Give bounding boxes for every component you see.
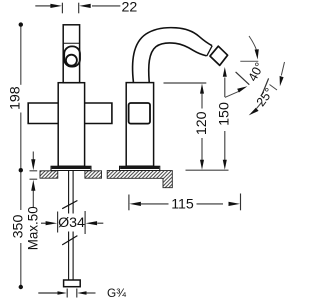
aerator cap parallelogram <box>210 46 228 65</box>
svg-text:150: 150 <box>217 102 233 126</box>
body side <box>126 83 153 167</box>
dimension Max.50 <box>30 152 38 208</box>
cross bar left arm <box>28 103 58 124</box>
svg-text:Ø34: Ø34 <box>58 215 85 231</box>
leader lower with arrow down-left <box>257 103 262 109</box>
shank <box>68 171 70 214</box>
tick 25 <box>262 78 269 94</box>
leader top curved with arrow down <box>249 36 257 51</box>
svg-text:22: 22 <box>122 0 138 15</box>
flange left <box>51 166 91 170</box>
ref line 0deg <box>240 60 258 62</box>
short line right of 25 tick <box>270 85 278 91</box>
dimension 198 / 350 line <box>20 25 22 287</box>
svg-text:120: 120 <box>194 111 210 135</box>
spout front rounded <box>64 46 80 66</box>
svg-text:198: 198 <box>7 86 23 110</box>
handle square side <box>129 103 150 124</box>
dimension 22 <box>35 3 120 14</box>
spout cut line <box>207 46 212 56</box>
spout outer curve <box>133 28 212 82</box>
tick 40 <box>236 72 250 85</box>
leader lower-left arrow up-right <box>225 91 240 98</box>
svg-text:Max.50: Max.50 <box>25 206 40 250</box>
counter left unit (hatched boxes) <box>40 171 172 188</box>
spout inner curve <box>149 43 207 82</box>
break slash lower <box>62 236 77 245</box>
flange right <box>120 166 160 170</box>
dimension G3/4 <box>38 289 95 298</box>
svg-text:350: 350 <box>11 215 27 239</box>
cross bar right arm <box>85 103 112 124</box>
counter right unit with leg <box>107 171 172 188</box>
handle top section <box>63 25 79 83</box>
aerator circle front <box>66 55 77 66</box>
svg-text:G¾: G¾ <box>107 286 126 300</box>
body front <box>58 83 84 167</box>
break slash upper <box>62 201 77 209</box>
thread connector box <box>64 280 81 287</box>
leader right with arrow down-left <box>281 62 284 76</box>
dimension Ø34 <box>41 211 103 234</box>
dimension 150 <box>224 78 226 161</box>
dimension 120 <box>164 83 229 170</box>
joint line <box>63 42 79 44</box>
dimension 115 <box>129 194 241 211</box>
svg-text:115: 115 <box>171 196 194 212</box>
